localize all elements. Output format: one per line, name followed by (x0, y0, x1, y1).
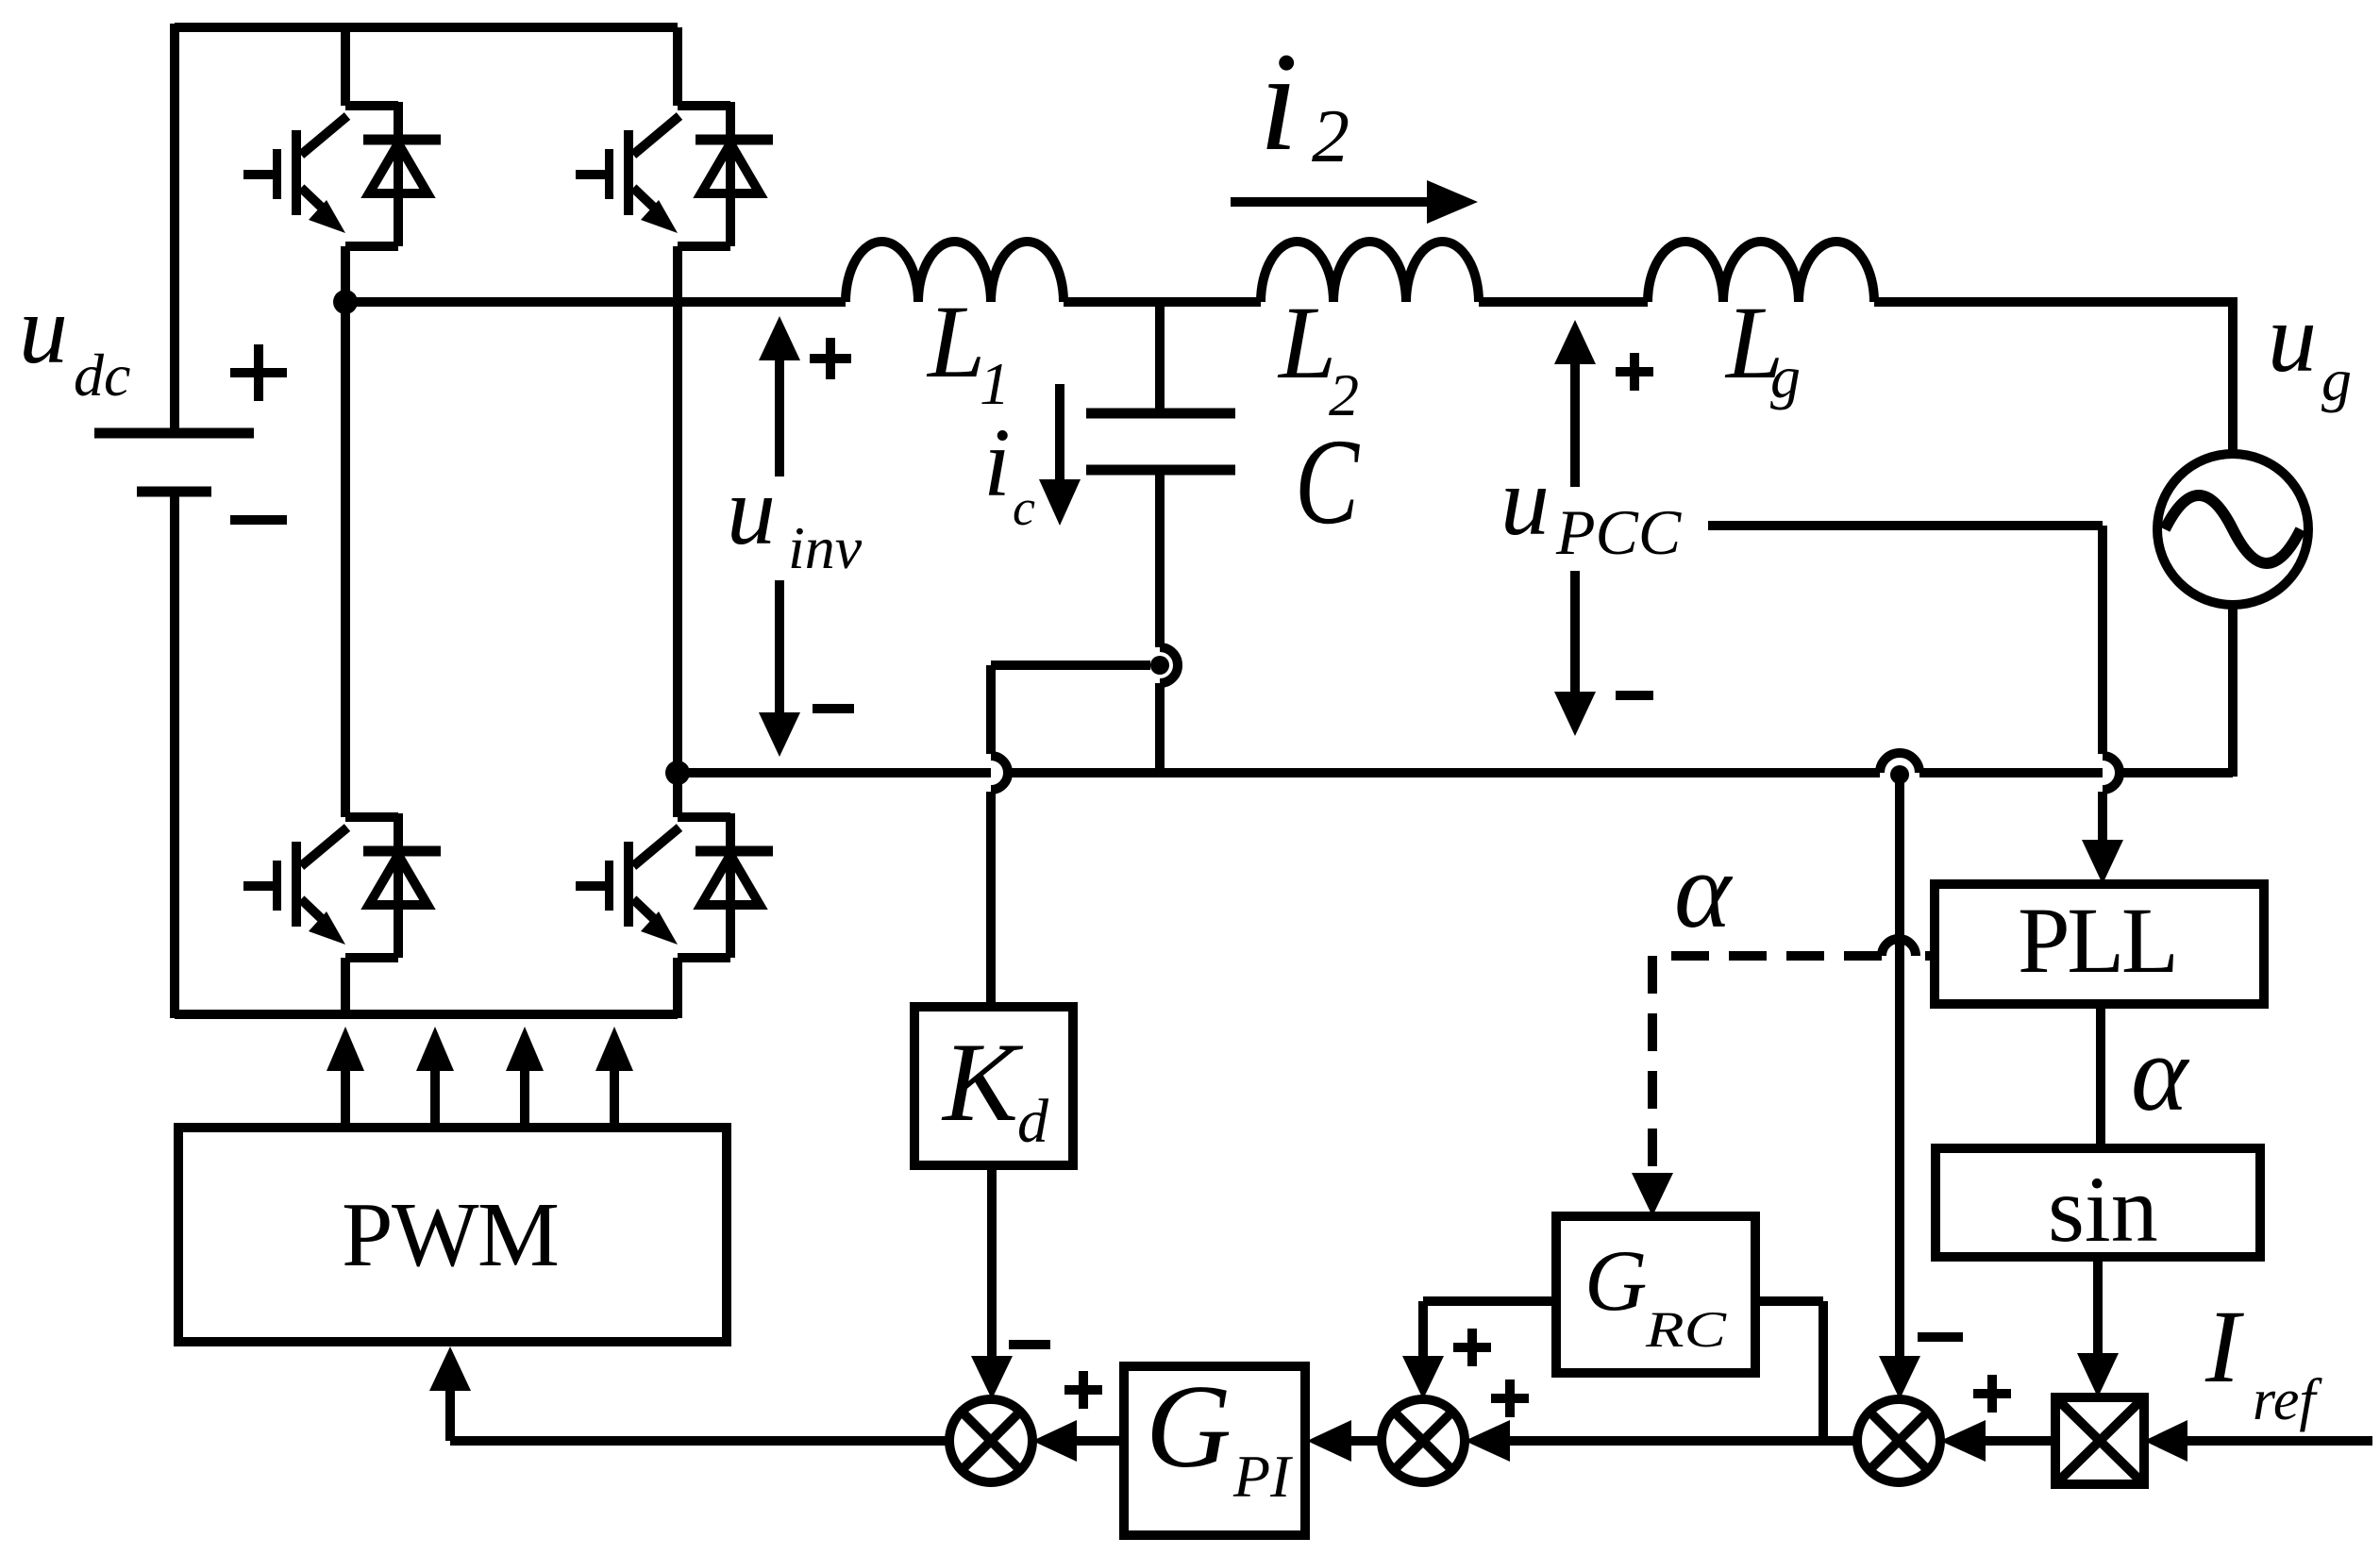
svg-text:d: d (1017, 1087, 1049, 1156)
label ic (983, 409, 1035, 536)
block Kd box (914, 1007, 1073, 1165)
label Lg (1724, 285, 1801, 410)
inductor Lg (1648, 242, 1874, 302)
wire phase-A leg mid (341, 246, 350, 817)
svg-text:PLL: PLL (2018, 888, 2179, 993)
wire L1 to L2 (1064, 297, 1261, 307)
wire Kd sense vertical lower (986, 792, 996, 1007)
junction1 plus sign (1064, 1371, 1102, 1409)
grid source sine wave (2165, 495, 2301, 563)
wire left DC leg lower (170, 496, 179, 1018)
capacitor C lower lead to rail (1155, 683, 1165, 773)
svg-text:C: C (1295, 414, 1360, 550)
node dot on capacitor lead (1150, 656, 1169, 675)
svg-text:g: g (1770, 343, 1801, 410)
svg-text:α: α (1674, 830, 1734, 950)
grid source bottom lead (2228, 605, 2238, 777)
label C (1295, 414, 1360, 550)
transistor Q3 bottom-left IGBT with diode (243, 813, 441, 958)
label L1 (926, 284, 1010, 417)
arrow multiplier to junction3 (1986, 1436, 2055, 1446)
wire bottom DC rail (175, 1010, 678, 1019)
svg-text:I: I (2204, 1289, 2244, 1404)
wire G_RC input tap (1755, 1301, 1823, 1441)
transistor Q4 bottom-right IGBT with diode (576, 813, 773, 958)
wire bottom AC rail left (678, 768, 1880, 777)
wire u_PCC sense horizontal (1708, 521, 2103, 530)
wire Kd sense horizontal (991, 660, 1150, 670)
u_inv plus sign (810, 338, 851, 379)
wire i2 sense down to junction3 (1895, 782, 1904, 1356)
wire Kd to junction1 (987, 1165, 997, 1356)
svg-text:2: 2 (1312, 95, 1349, 178)
wire phase-B leg top (673, 27, 682, 106)
u_PCC minus sign (1616, 691, 1653, 700)
wire bottom AC rail right (1919, 768, 2233, 777)
capacitor C bottom lead (1155, 475, 1165, 647)
label alpha right (2131, 1013, 2190, 1133)
inductor L2 (1261, 242, 1479, 302)
svg-text:g: g (2321, 346, 2352, 413)
arrow i2 (1231, 197, 1427, 207)
block PWM box (178, 1128, 727, 1342)
svg-text:sin: sin (2048, 1157, 2158, 1262)
svg-text:K: K (941, 1019, 1024, 1145)
wire into PLL with arrow (2098, 792, 2107, 840)
junction2 summing (1382, 1399, 1465, 1482)
svg-text:1: 1 (980, 350, 1010, 417)
svg-text:RC: RC (1645, 1301, 1727, 1358)
block G_PI box (1124, 1366, 1305, 1535)
label G_PI (1146, 1362, 1293, 1510)
label u_inv (727, 457, 863, 581)
label Kd (941, 1019, 1049, 1156)
inductor L1 (846, 242, 1064, 302)
label alpha left (1674, 830, 1734, 950)
wire phase-B leg bottom (673, 958, 682, 1018)
multiplier box (2055, 1397, 2144, 1484)
arrow u_inv up (775, 360, 784, 477)
label u_dc (19, 276, 130, 409)
svg-text:L: L (926, 284, 985, 399)
arrow I_ref into multiplier (2187, 1436, 2372, 1446)
junction3 summing (1857, 1399, 1940, 1482)
node dot sense tap (1890, 765, 1909, 784)
battery minus sign (230, 515, 287, 525)
svg-text:i: i (983, 409, 1011, 517)
label i2 (1259, 24, 1349, 180)
wire junction1 to PWM (450, 1391, 949, 1441)
svg-text:u: u (1500, 447, 1550, 556)
label PLL (2018, 888, 2179, 993)
label I_ref (2204, 1289, 2322, 1432)
wire G_RC output to junction2 (1423, 1301, 1556, 1356)
arrow u_PCC up (1570, 364, 1580, 487)
wire top DC+ rail (175, 23, 678, 32)
label sin (2048, 1157, 2158, 1262)
svg-text:PWM: PWM (342, 1184, 560, 1286)
svg-text:u: u (2268, 284, 2317, 393)
svg-text:PI: PI (1232, 1443, 1293, 1510)
block PLL box (1935, 884, 2264, 1004)
wire u_PCC sense vertical (2098, 526, 2107, 754)
svg-text:G: G (1146, 1362, 1232, 1493)
svg-text:inv: inv (788, 514, 863, 581)
junction1 minus sign (1009, 1340, 1050, 1349)
svg-text:u: u (727, 457, 776, 565)
grid source ug circle (2157, 454, 2308, 605)
capacitor C plates (1086, 413, 1235, 470)
arrow G_PI to junction1 (1077, 1436, 1124, 1446)
wire left DC leg upper (170, 24, 179, 428)
transistor Q2 top-right IGBT with diode (576, 102, 773, 246)
dashed alpha line horizontal (1925, 951, 1935, 961)
node hop around dot on capacitor lead (1160, 647, 1178, 683)
arrow u_inv down (775, 580, 784, 712)
svg-text:α: α (2131, 1013, 2190, 1133)
junction3 minus sign (1918, 1332, 1963, 1342)
battery u_dc plate - (137, 487, 211, 497)
wire Lg to grid (1874, 297, 2233, 454)
label u_PCC (1500, 447, 1682, 568)
wire PLL to sin (2096, 1004, 2105, 1148)
label G_RC (1584, 1232, 1727, 1358)
arrow ic (1055, 384, 1064, 479)
u_inv minus sign (813, 704, 854, 713)
arrow sin to multiplier (2093, 1257, 2103, 1353)
wire Kd sense vertical upper (986, 665, 996, 754)
transistor Q1 top-left IGBT with diode (243, 102, 441, 246)
junction2 plus top sign (1453, 1329, 1491, 1366)
svg-text:u: u (19, 276, 68, 384)
hop over rail (2103, 756, 2120, 790)
node bump on rail at sense tap (1880, 753, 1919, 773)
label L2 (1277, 285, 1359, 428)
wire AC output line (345, 297, 846, 307)
svg-text:L: L (1277, 285, 1336, 400)
svg-text:ref: ref (2253, 1368, 2322, 1432)
wire phase-A leg top (341, 27, 350, 106)
arrow junction2 to G_PI (1351, 1436, 1382, 1446)
label ug (2268, 284, 2352, 413)
svg-text:PCC: PCC (1555, 496, 1682, 568)
wire L2 to Lg (1479, 297, 1648, 307)
svg-text:i: i (1259, 24, 1299, 180)
wire phase-A leg bottom (341, 958, 350, 1018)
hop over rail (991, 756, 1008, 790)
junction1 summing (949, 1399, 1032, 1482)
PWM gate drive arrows (327, 1027, 633, 1128)
svg-text:c: c (1013, 479, 1035, 536)
svg-text:G: G (1584, 1232, 1647, 1329)
label PWM (342, 1184, 560, 1286)
node B dot (665, 761, 690, 785)
block sin box (1936, 1148, 2260, 1257)
battery plus sign (230, 344, 287, 401)
wire error line junction3 to junction2 (1510, 1436, 1857, 1446)
u_PCC plus sign (1616, 353, 1653, 391)
capacitor C top lead (1155, 302, 1165, 409)
dashed alpha line vertical (1648, 956, 1657, 1173)
wire phase-B leg mid (673, 246, 682, 817)
battery u_dc plate + (94, 428, 254, 439)
svg-text:dc: dc (74, 342, 130, 409)
arrow u_PCC down (1570, 571, 1580, 692)
node A dot (333, 290, 358, 314)
junction2 plus right sign (1491, 1379, 1529, 1417)
block G_RC box (1556, 1216, 1755, 1373)
junction3 plus sign (1973, 1375, 2011, 1413)
